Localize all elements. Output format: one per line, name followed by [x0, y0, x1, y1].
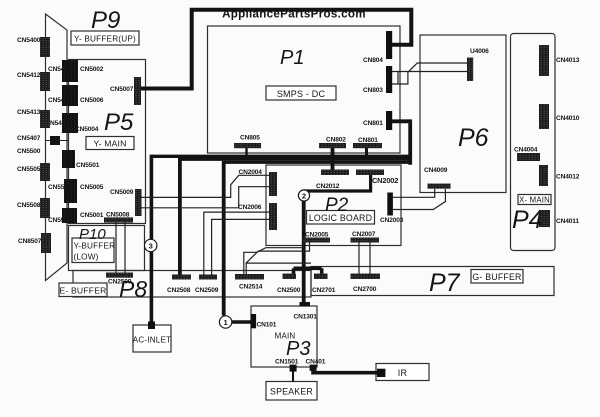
svg-text:(LOW): (LOW)	[74, 252, 99, 261]
wire node 2 to CN1301	[302, 190, 306, 303]
svg-text:CN801: CN801	[358, 137, 378, 144]
connector CN2514	[235, 274, 264, 280]
wire CN2007 to CN2700 pin B	[369, 242, 371, 273]
connector CN5508	[40, 198, 50, 218]
Y-buffer carrier board (left narrow board)	[46, 14, 68, 281]
connector CN5505	[40, 163, 50, 181]
label box X-MAIN	[518, 195, 551, 205]
svg-text:CN4010: CN4010	[556, 115, 580, 122]
wire stub into CN2500	[292, 268, 296, 274]
connector CN2509 on P8 under P10	[106, 273, 133, 278]
connector CN8507	[41, 233, 51, 253]
board P4 X-MAIN outline	[511, 34, 556, 251]
svg-text:CN5412: CN5412	[17, 72, 41, 79]
wire CN5008 to CN2509 pin A	[115, 222, 117, 272]
connector U4006	[467, 58, 473, 82]
svg-text:CN5005: CN5005	[80, 184, 104, 191]
board P2 LOGIC BOARD outline	[266, 165, 401, 246]
svg-text:CN5009: CN5009	[110, 189, 134, 196]
svg-text:CN2514: CN2514	[239, 284, 263, 291]
svg-text:3: 3	[149, 241, 153, 250]
wire CN801 bottom stub	[365, 148, 368, 156]
svg-text:X- MAIN: X- MAIN	[519, 195, 550, 204]
svg-text:CN2508: CN2508	[167, 287, 191, 294]
svg-text:CN1301: CN1301	[294, 314, 318, 321]
svg-text:CN55: CN55	[48, 217, 65, 224]
wire stub into CN2701	[320, 268, 324, 274]
connector CN2003	[387, 193, 393, 216]
svg-text:CN54: CN54	[48, 97, 65, 104]
svg-text:CN5407: CN5407	[17, 135, 41, 142]
wire CN5008 to CN2509 pin B	[124, 222, 126, 272]
svg-text:CN5501: CN5501	[76, 162, 100, 169]
wire CN803 to U4006 pin A	[392, 63, 467, 84]
connector CN5412	[40, 72, 50, 91]
label box Y-MAIN	[86, 137, 134, 150]
wire branch to CN2500 and CN2701	[294, 266, 322, 270]
connector CN805	[234, 143, 261, 148]
board P5 Y-MAIN outline	[69, 60, 146, 224]
box IR	[376, 364, 429, 381]
wire CN5007 to CN804 top loop	[141, 10, 411, 89]
connector CN2005	[303, 238, 331, 243]
wire CN2003 to CN4009 pin A	[393, 189, 435, 198]
wire drop to AC-INLET (node 3)	[150, 155, 154, 325]
wire along P8 top from CN2514 bundle	[246, 262, 311, 264]
svg-text:SPEAKER: SPEAKER	[270, 387, 313, 397]
svg-text:CN805: CN805	[240, 135, 260, 142]
svg-text:P9: P9	[91, 7, 120, 34]
connector CN803	[386, 66, 392, 93]
wire CN1501 to SPEAKER	[292, 372, 294, 383]
connector CN4011	[539, 210, 550, 227]
svg-text:CN2006: CN2006	[238, 204, 262, 211]
svg-text:CN804: CN804	[363, 57, 383, 64]
connector CN4004	[517, 153, 540, 161]
connector CN4009	[428, 184, 451, 189]
svg-text:P2: P2	[325, 195, 349, 216]
svg-text:CN4013: CN4013	[556, 57, 580, 64]
wire CN2006 to CN2509 pin B	[212, 219, 269, 274]
svg-text:CN5505: CN5505	[17, 166, 41, 173]
connector CN1501	[290, 365, 297, 372]
connector CN5400	[40, 37, 50, 57]
connector pair CN5505/CN5005	[64, 179, 77, 203]
connector CN2500	[283, 274, 297, 280]
svg-text:CN2012: CN2012	[316, 183, 340, 190]
connector pair CN5402/CN5002	[62, 60, 78, 82]
svg-text:P1: P1	[280, 47, 304, 69]
connector CN2508	[172, 275, 191, 280]
board P10 outline	[69, 226, 145, 271]
wire CN2006 to CN2509 pin A	[204, 212, 269, 275]
connector CN5501	[62, 150, 75, 168]
label box G-BUFFER	[471, 270, 523, 284]
svg-text:P4: P4	[512, 206, 543, 234]
svg-text:CN2003: CN2003	[380, 217, 404, 224]
board P1 SMPS-DC outline	[208, 26, 401, 153]
svg-text:CN5008: CN5008	[106, 212, 130, 219]
wire bus C (SMPS bottom bus lower)	[224, 161, 411, 164]
wire junction short link at CN803	[397, 72, 399, 85]
wire CN5009 to CN2004 pin B	[141, 187, 269, 208]
wire CN2003 to CN4009 pin B	[393, 189, 446, 210]
svg-text:G- BUFFER: G- BUFFER	[472, 272, 521, 282]
connector CN2004	[269, 172, 277, 196]
wire CN2005 to CN2514 pin A	[244, 242, 304, 274]
connector IR input	[377, 369, 385, 377]
board P7 G-BUFFER strip outline	[311, 267, 554, 296]
wire CN805 stub	[245, 148, 247, 156]
svg-text:CN5400: CN5400	[17, 37, 41, 44]
wire bus A (SMPS bottom bus upper)	[151, 155, 410, 158]
svg-text:2: 2	[302, 191, 306, 200]
svg-text:CN803: CN803	[363, 87, 383, 94]
svg-text:CN8507: CN8507	[18, 238, 42, 245]
wire CN2002 to node 2	[304, 175, 371, 192]
connector CN5008	[104, 217, 133, 222]
connector CN4010	[539, 104, 549, 129]
wire CN801 side to bus	[391, 121, 410, 165]
connector CN2701	[314, 274, 328, 280]
wire node 1 to CN101	[232, 320, 252, 323]
svg-text:CN2007: CN2007	[352, 231, 376, 238]
connector CN2002	[356, 170, 384, 176]
wire CN803 to U4006 pin B	[392, 71, 467, 73]
connector CN804	[386, 31, 392, 59]
svg-text:CN2509: CN2509	[195, 287, 219, 294]
node 2 circle	[298, 190, 309, 201]
svg-text:IR: IR	[398, 368, 408, 378]
svg-text:CN5508: CN5508	[17, 202, 41, 209]
board P6 outline	[420, 35, 506, 193]
connector CN5007	[134, 77, 141, 105]
connector CN2007	[351, 238, 380, 243]
svg-text:CN2701: CN2701	[312, 287, 336, 294]
svg-text:CN2002: CN2002	[372, 176, 398, 185]
label box LOGIC BOARD	[307, 211, 375, 225]
connector CN5009	[135, 189, 142, 216]
svg-text:CN2700: CN2700	[353, 286, 377, 293]
label box Y-BUFFER(LOW)	[72, 238, 114, 263]
svg-text:CN55: CN55	[48, 184, 65, 191]
node 3 circle	[145, 239, 157, 251]
svg-text:CN802: CN802	[326, 137, 346, 144]
wire CN2005 to CN2514 pin B	[246, 242, 309, 274]
wire bus B (SMPS bottom bus middle)	[180, 158, 410, 161]
svg-text:P6: P6	[458, 124, 489, 152]
svg-text:Y- MAIN: Y- MAIN	[93, 139, 126, 149]
svg-text:CN4012: CN4012	[556, 174, 580, 181]
box SPEAKER	[266, 382, 317, 401]
svg-text:P7: P7	[429, 269, 461, 297]
svg-text:CN54: CN54	[48, 66, 65, 73]
svg-text:CN5002: CN5002	[80, 66, 104, 73]
svg-text:CN801: CN801	[363, 120, 383, 127]
svg-text:CN5007: CN5007	[110, 86, 134, 93]
wire drop to node 1	[222, 161, 226, 316]
svg-text:CN2500: CN2500	[277, 287, 301, 294]
label box E-BUFFER	[59, 283, 107, 297]
wire CN5009 to CN2004 pin A	[141, 175, 269, 197]
wire CN5407 stub	[46, 140, 69, 142]
svg-text:CN2005: CN2005	[305, 232, 329, 239]
wire CN401 to IR	[313, 366, 378, 373]
svg-text:CN101: CN101	[257, 322, 277, 329]
svg-text:E- BUFFER: E- BUFFER	[59, 285, 106, 295]
svg-text:CN5413: CN5413	[17, 109, 41, 116]
svg-text:P10: P10	[79, 226, 106, 243]
svg-text:P3: P3	[286, 338, 310, 360]
board P8 E-BUFFER strip outline	[73, 271, 311, 298]
connector CN2012	[321, 170, 349, 176]
svg-text:CN2004: CN2004	[239, 169, 263, 176]
svg-text:AC-INLET: AC-INLET	[133, 335, 171, 344]
svg-text:P8: P8	[119, 276, 147, 302]
connector CN801 bottom	[353, 143, 382, 148]
label box SMPS-DC	[266, 86, 336, 100]
svg-text:CN5001: CN5001	[80, 212, 104, 219]
svg-text:CN5006: CN5006	[80, 97, 104, 104]
svg-text:CN5500: CN5500	[17, 148, 41, 155]
wire CN2007 to CN2700 pin A	[358, 242, 360, 273]
connector CN4012	[539, 165, 548, 186]
connector CN5413	[40, 110, 50, 128]
svg-text:CN4004: CN4004	[514, 147, 538, 154]
connector pair CN5403/CN5006	[62, 85, 78, 106]
svg-text:N548: N548	[50, 120, 66, 127]
label box Y-BUFFER(UP)	[71, 31, 139, 45]
wire CN802 stub to CN2012	[331, 148, 335, 171]
svg-text:U4006: U4006	[470, 48, 489, 55]
connector AC inlet terminal	[148, 322, 155, 330]
connector CN1301	[300, 302, 311, 307]
connector CN2509 on P7 strip	[199, 275, 217, 280]
connector CN4013	[539, 45, 549, 76]
connector pair CN5509/CN5001	[62, 208, 77, 223]
svg-text:P5: P5	[104, 109, 134, 136]
box AC-INLET	[133, 325, 171, 352]
wire drop to CN2508	[178, 158, 182, 275]
connector CN2006	[269, 203, 277, 230]
connector CN2700	[351, 274, 381, 280]
connector CN801 side	[386, 111, 392, 130]
connector CN802	[319, 143, 346, 148]
svg-text:CN4011: CN4011	[556, 218, 579, 225]
connector CN5407	[50, 136, 60, 145]
board P3 MAIN outline	[251, 306, 317, 367]
svg-text:Y- BUFFER(UP): Y- BUFFER(UP)	[74, 35, 136, 44]
node 1 circle	[219, 316, 231, 328]
connector CN101	[251, 314, 256, 328]
svg-text:CN5004: CN5004	[75, 126, 99, 133]
svg-text:SMPS - DC: SMPS - DC	[277, 89, 326, 99]
svg-text:CN4009: CN4009	[424, 167, 448, 174]
connector pair CN5408/CN5004	[62, 113, 78, 133]
connector CN401	[310, 365, 317, 371]
